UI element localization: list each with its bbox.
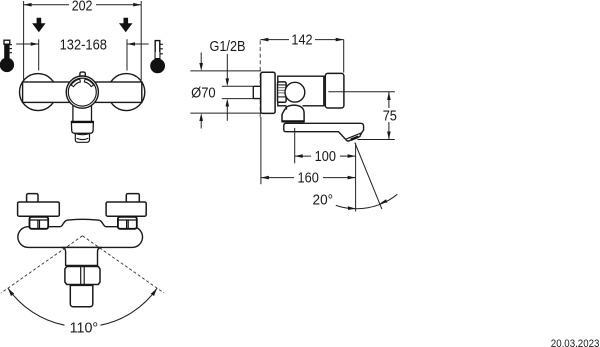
angle arc 110deg left segment bbox=[8, 288, 65, 325]
dimension 142 arrowheads bbox=[260, 38, 268, 42]
stub top extension line bbox=[222, 85, 254, 87]
knob arc band right bbox=[84, 79, 93, 87]
svg-text:202: 202 bbox=[72, 0, 93, 15]
G1/2B leader arrow up bbox=[226, 99, 230, 121]
diameter 70 arrow up bbox=[199, 113, 203, 128]
wall line (dashed) bbox=[259, 41, 261, 119]
diameter 70 arrow down bbox=[199, 53, 203, 71]
dimension 202 extension line left bbox=[23, 1, 25, 80]
aerator housing (front) bbox=[71, 122, 93, 133]
flange bottom extension line bbox=[190, 112, 261, 114]
left union nut (top view) bbox=[30, 217, 49, 229]
dimension 132-168 right arrow (outside) bbox=[127, 42, 149, 46]
wall flange circle right bbox=[108, 74, 145, 111]
spout elbow bold bottom edge bbox=[282, 120, 304, 122]
aerator slot (side, dark) bbox=[351, 136, 358, 140]
knob arc band left bbox=[71, 79, 80, 87]
svg-text:100: 100 bbox=[315, 148, 336, 165]
center line through cap bbox=[328, 91, 395, 93]
right escutcheon bbox=[106, 202, 146, 216]
inlet position arrow right (solid black) bbox=[119, 18, 133, 32]
spout tip (top view) bbox=[70, 285, 93, 306]
svg-text:110°: 110° bbox=[70, 319, 99, 336]
svg-text:G1/2B: G1/2B bbox=[210, 38, 246, 55]
wall flange circle left bbox=[20, 74, 57, 111]
75 bottom reference line bbox=[358, 139, 395, 141]
thermometer hot (left) bbox=[0, 40, 14, 72]
knob top tab bbox=[80, 72, 85, 80]
wall extension line solid (160 left) bbox=[260, 117, 262, 184]
G1/2B leader arrow down bbox=[226, 54, 230, 86]
ball joint circle (side) bbox=[285, 82, 305, 102]
right wall pipe square bbox=[126, 194, 139, 203]
arc arrowhead at vertical line bbox=[348, 206, 356, 210]
spout vertical reference line bbox=[355, 143, 357, 211]
wall stub pipe (side) bbox=[253, 86, 261, 98]
end cap / temperature knob (side) bbox=[325, 73, 344, 108]
body bar bbox=[23, 82, 142, 102]
left wall pipe square bbox=[27, 194, 38, 203]
spout base (top view) bbox=[62, 247, 102, 265]
dimension 100 line bbox=[295, 155, 356, 157]
spout neck (front) bbox=[73, 106, 92, 122]
svg-text:20.03.2023: 20.03.2023 bbox=[551, 338, 600, 347]
swivel range dashed line left bbox=[1, 236, 83, 293]
inlet position arrow left (solid black) bbox=[32, 18, 46, 32]
arc arrowhead left bbox=[8, 288, 14, 296]
dimension 132-168 extension line right bbox=[126, 39, 128, 70]
dimension 202 line bbox=[24, 4, 142, 6]
spout arm (side) bbox=[284, 123, 364, 141]
wall flange (side) bbox=[261, 72, 275, 113]
right union nut (top view) bbox=[118, 217, 137, 229]
dimension 75 arrowheads bbox=[387, 92, 391, 100]
dimension 202 extension line right bbox=[140, 1, 142, 80]
stub bottom extension line bbox=[222, 98, 254, 100]
body cylinder (side) bbox=[278, 76, 324, 106]
flange top extension line bbox=[190, 70, 261, 72]
dimension 75 line bbox=[388, 92, 390, 140]
aerator cut face line (side) bbox=[346, 133, 361, 139]
control knob inner circle bbox=[68, 78, 96, 106]
dimension 202 arrowheads bbox=[24, 3, 32, 7]
svg-text:132-168: 132-168 bbox=[60, 36, 107, 53]
svg-text:20°: 20° bbox=[313, 192, 334, 209]
arc arrowhead right bbox=[151, 288, 157, 296]
dimension 100 extension line bbox=[294, 128, 296, 163]
body (top view) with cartridge plateau bbox=[18, 219, 143, 247]
left escutcheon bbox=[18, 202, 60, 216]
svg-text:75: 75 bbox=[383, 108, 397, 125]
dimension 142 line bbox=[260, 39, 343, 41]
swivel range dashed line right bbox=[83, 236, 165, 293]
svg-text:Ø70: Ø70 bbox=[191, 85, 216, 102]
spout elbow (side) bbox=[287, 105, 303, 107]
dimension 100 arrowheads bbox=[295, 154, 303, 158]
thermometer cold (right) bbox=[150, 41, 165, 74]
svg-text:142: 142 bbox=[291, 32, 312, 49]
dimension 160 arrowheads bbox=[261, 176, 269, 180]
control knob outer circle bbox=[66, 76, 98, 108]
aerator bold top edge (front) bbox=[71, 121, 94, 123]
dimension 132-168 extension line left bbox=[38, 39, 40, 70]
dimension 160 line bbox=[261, 177, 356, 179]
angle arc 110deg right segment bbox=[101, 288, 158, 325]
angle arc 20deg bbox=[336, 194, 398, 208]
svg-text:160: 160 bbox=[298, 170, 319, 187]
spray direction line 20deg bbox=[355, 143, 382, 210]
aerator tip (front) bbox=[75, 134, 89, 143]
dimension 142 right extension line bbox=[343, 40, 345, 73]
spout hex nut (top view) bbox=[65, 267, 100, 285]
union nut (side) bbox=[278, 82, 287, 102]
aerator face ring (front) bbox=[77, 138, 89, 139]
arc arrowhead at spray line bbox=[380, 199, 388, 203]
dimension 132-168 left arrow (outside) bbox=[16, 42, 39, 46]
